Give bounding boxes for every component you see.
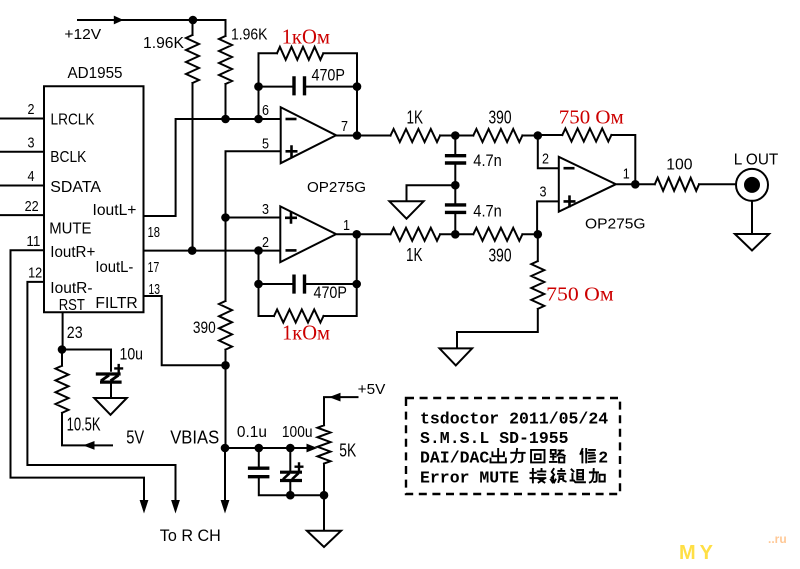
svg-text:IoutL-: IoutL- <box>95 259 133 276</box>
svg-text:1кОм: 1кОм <box>282 321 330 345</box>
svg-text:4.7n: 4.7n <box>473 151 502 170</box>
svg-text:7: 7 <box>341 119 348 135</box>
svg-text:1.96K: 1.96K <box>143 35 184 52</box>
svg-text:4.7n: 4.7n <box>473 202 502 221</box>
svg-text:3: 3 <box>262 202 269 218</box>
svg-text:390: 390 <box>489 246 512 266</box>
svg-text:IoutR-: IoutR- <box>50 280 92 297</box>
svg-text:3: 3 <box>540 185 547 201</box>
svg-text:6: 6 <box>262 103 269 119</box>
svg-text:17: 17 <box>148 260 160 276</box>
svg-text:5K: 5K <box>339 441 356 461</box>
svg-text:MY: MY <box>679 542 717 564</box>
svg-text:18: 18 <box>148 225 161 241</box>
svg-text:Error MUTE: Error MUTE <box>420 469 519 488</box>
svg-text:To R CH: To R CH <box>160 526 221 545</box>
svg-text:2: 2 <box>28 102 35 118</box>
svg-text:4: 4 <box>28 169 35 185</box>
svg-text:1.96K: 1.96K <box>231 27 268 44</box>
svg-text:100u: 100u <box>282 424 313 441</box>
svg-text:390: 390 <box>489 108 512 128</box>
svg-text:OP275G: OP275G <box>585 216 646 233</box>
svg-text:13: 13 <box>149 282 161 298</box>
svg-text:OP275G: OP275G <box>307 179 366 196</box>
svg-text:LRCLK: LRCLK <box>51 112 95 129</box>
svg-text:2: 2 <box>598 449 608 468</box>
svg-text:22: 22 <box>25 199 39 215</box>
svg-text:..ru: ..ru <box>768 532 787 546</box>
svg-text:FILTR: FILTR <box>95 295 137 312</box>
svg-text:10.5K: 10.5K <box>67 415 101 435</box>
svg-text:IoutL+: IoutL+ <box>93 202 137 219</box>
svg-text:750 Ом: 750 Ом <box>559 107 624 129</box>
svg-text:1K: 1K <box>407 108 424 128</box>
svg-text:470P: 470P <box>314 283 347 302</box>
svg-text:MUTE: MUTE <box>49 221 91 238</box>
svg-text:2: 2 <box>262 235 269 251</box>
svg-text:100: 100 <box>666 157 692 174</box>
svg-text:BCLK: BCLK <box>50 149 86 166</box>
svg-text:470P: 470P <box>312 66 345 85</box>
svg-text:0.1u: 0.1u <box>237 424 267 441</box>
svg-text:AD1955: AD1955 <box>68 65 123 82</box>
svg-text:11: 11 <box>26 234 40 250</box>
svg-text:390: 390 <box>193 318 216 337</box>
svg-text:750 Ом: 750 Ом <box>546 284 614 306</box>
svg-text:5: 5 <box>262 137 269 153</box>
svg-text:tsdoctor 2011/05/24: tsdoctor 2011/05/24 <box>420 410 608 429</box>
svg-text:2: 2 <box>542 152 549 168</box>
svg-text:1кОм: 1кОм <box>282 25 330 49</box>
svg-text:+5V: +5V <box>358 382 386 398</box>
svg-text:5V: 5V <box>126 428 144 448</box>
svg-text:SDATA: SDATA <box>50 179 101 196</box>
svg-text:RST: RST <box>59 297 85 314</box>
svg-text:+12V: +12V <box>64 27 101 43</box>
svg-text:12: 12 <box>28 266 42 282</box>
svg-text:1: 1 <box>623 167 630 183</box>
svg-text:1: 1 <box>343 218 350 234</box>
svg-text:IoutR+: IoutR+ <box>50 244 95 261</box>
svg-text:23: 23 <box>67 323 83 342</box>
svg-text:L OUT: L OUT <box>734 151 779 168</box>
svg-text:S.M.S.L SD-1955: S.M.S.L SD-1955 <box>420 429 569 448</box>
svg-text:DAI/DAC: DAI/DAC <box>420 449 489 468</box>
svg-text:10u: 10u <box>120 345 144 364</box>
svg-text:VBIAS: VBIAS <box>170 428 219 448</box>
svg-text:3: 3 <box>28 136 35 152</box>
svg-text:1K: 1K <box>406 245 423 265</box>
